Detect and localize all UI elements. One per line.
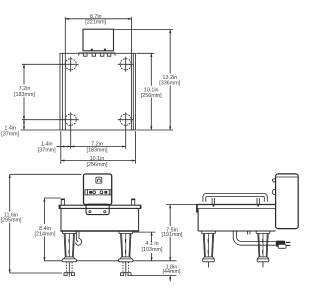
svg-text:[336mm]: [336mm] — [159, 81, 180, 87]
dim 1.4in left arrows — [23, 120, 25, 124]
hood nub left — [91, 49, 93, 51]
badge plate — [86, 204, 109, 214]
tray rim end cap left — [59, 206, 61, 209]
dim 10.1in right line — [150, 53, 152, 130]
dim 1.4in bottom line — [57, 146, 71, 148]
panel lamp left — [93, 191, 96, 194]
plate right flange line 2 (8.7in reference) — [131, 17, 133, 130]
dim 7.2in left arrows — [23, 64, 25, 68]
tray rim end cap right — [140, 206, 142, 209]
foot bottom-right crosshair (vertical extends down to dims) — [118, 112, 134, 149]
dim 8.7in line — [65, 18, 131, 20]
svg-text:[103mm]: [103mm] — [142, 247, 163, 253]
svg-text:[37mm]: [37mm] — [1, 131, 19, 137]
handle post dot left — [212, 205, 214, 207]
dim 7.2in bottom arrows — [71, 145, 75, 147]
dim 10.1in bottom line — [61, 160, 136, 162]
hood nub right — [104, 49, 106, 51]
svg-text:[214mm]: [214mm] — [35, 231, 56, 237]
side control box — [276, 174, 299, 229]
dim 13.2in: extension from hood top — [114, 29, 174, 31]
drain tube (front) — [76, 231, 82, 245]
plate outline (top view) — [60, 53, 135, 130]
foot top-left: dashed circle — [65, 59, 76, 70]
dim 7.5in: top extension to side view — [166, 204, 197, 206]
handle post right — [257, 198, 259, 205]
dim 8.4in arrows — [43, 198, 45, 202]
handle inner — [206, 197, 265, 202]
logo glyph — [98, 179, 101, 182]
dim 7.2in left line — [23, 64, 25, 119]
dim 1.8in arrow — [169, 276, 171, 280]
tray pin left (front) — [61, 199, 65, 205]
side right leg — [256, 231, 270, 267]
dim 7.5in line — [169, 205, 171, 261]
dim 11.6in arrows — [9, 174, 11, 178]
plate right flange line 1 — [132, 53, 134, 130]
front left leg — [62, 231, 77, 276]
logo square — [96, 177, 102, 183]
plate left flange line 1 — [62, 53, 64, 130]
tray bottom (front) — [60, 230, 139, 232]
panel end tick right — [108, 190, 110, 195]
plate left flange line 2 (8.7in reference) — [64, 17, 66, 130]
badge screw left — [89, 211, 91, 213]
dim 7.5in arrows — [169, 205, 171, 209]
svg-text:[256mm]: [256mm] — [141, 93, 162, 99]
panel switch left — [89, 191, 92, 194]
tray rim (front) — [59, 205, 141, 208]
rail tab 1 — [83, 53, 87, 56]
leg-disc reference line — [44, 260, 177, 262]
plug prongs — [286, 242, 291, 245]
side box inner top line — [276, 176, 298, 178]
rail tab 2 — [92, 53, 96, 56]
svg-text:[295mm]: [295mm] — [1, 217, 22, 223]
drain pipe elbow — [233, 231, 275, 245]
dim 13.2in line — [169, 30, 171, 131]
handle outer — [203, 193, 267, 201]
floor reference line — [131, 275, 176, 277]
panel strip — [85, 190, 111, 195]
svg-text:[191mm]: [191mm] — [162, 232, 183, 238]
dim 7.2in left: extension lines from feet centers — [22, 64, 63, 119]
dim 1.4in left line — [23, 120, 25, 130]
svg-text:[221mm]: [221mm] — [85, 20, 106, 26]
foot top-right crosshair — [118, 57, 134, 72]
foot bottom-right: dashed circle — [120, 114, 131, 125]
bottom dims: extension from plate bottom left corner — [60, 131, 62, 164]
rail tab 4 — [107, 53, 111, 56]
handle post dot right — [257, 205, 259, 207]
panel switch right — [104, 191, 107, 194]
side tray left bold edge — [196, 204, 198, 213]
dim 8.4in line — [43, 198, 45, 261]
dim 4.1in arrows — [151, 232, 153, 236]
control box (front) — [84, 174, 112, 205]
side tray body — [198, 209, 275, 231]
drain stub under tray — [248, 231, 250, 235]
badge screw right — [104, 211, 106, 213]
dim 4.1in line — [151, 232, 153, 261]
dim 1.8in line below floor — [169, 276, 171, 282]
dim 10.1in right arrows — [150, 53, 152, 57]
dim 13.2in arrows — [169, 30, 171, 34]
dim 13.2in: extension from plate bottom right — [136, 129, 173, 131]
dim 1.4in left: extension from plate bottom left — [21, 129, 61, 131]
dim 7.2in bottom line — [71, 146, 126, 148]
rail tab 3 — [100, 53, 104, 56]
handle post left — [212, 198, 214, 205]
side box bump tab — [272, 189, 275, 195]
front right leg — [119, 231, 134, 276]
dim 10.1in right: extension from plate top right — [136, 52, 154, 54]
side box latch tab — [272, 178, 275, 182]
dim 11.6in line — [9, 174, 11, 273]
bottom dims: extension from plate bottom right corner — [135, 131, 137, 164]
foot bottom-left: dashed circle — [65, 114, 76, 125]
tray pin right (front) — [131, 199, 135, 205]
foot top-left crosshair — [63, 57, 79, 72]
panel end tick left — [87, 190, 89, 195]
power plug body — [276, 241, 285, 247]
plug lower shell — [278, 244, 286, 248]
hood box (top view) — [83, 29, 114, 51]
dim 11.6in: bottom extension — [10, 272, 62, 274]
dim 8.4in: top extension — [44, 197, 60, 199]
svg-text:[37mm]: [37mm] — [38, 147, 56, 153]
svg-text:[183mm]: [183mm] — [14, 92, 35, 98]
dim 4.1in: top extension — [133, 231, 156, 233]
dim 1.4in bottom arrows — [61, 145, 65, 147]
svg-text:[183mm]: [183mm] — [87, 147, 108, 153]
mounting rail under hood — [79, 53, 115, 56]
dim 8.7in arrows — [65, 18, 69, 20]
svg-text:[256mm]: [256mm] — [87, 162, 108, 168]
panel lamp right — [100, 191, 103, 194]
foot bottom-left crosshair (vertical extends down to dims) — [63, 112, 79, 149]
tray body (front) — [61, 208, 139, 231]
side left leg — [202, 231, 216, 267]
svg-text:[44mm]: [44mm] — [163, 269, 181, 275]
dim 11.6in: top extension — [10, 173, 82, 175]
dim 10.1in bottom arrows — [61, 160, 65, 162]
side tray rim — [197, 204, 276, 206]
foot top-right: dashed circle — [120, 59, 131, 70]
